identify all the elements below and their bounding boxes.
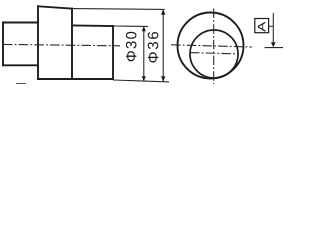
shared bottom extension line xyxy=(113,80,169,82)
datum A: centerline extension at right edge xyxy=(265,47,284,49)
right view: inner eccentric circle xyxy=(190,30,238,78)
dimension phi30: value text xyxy=(126,32,137,62)
front view: flange top edge xyxy=(38,6,72,8)
right view: vertical centerline xyxy=(213,9,215,85)
front view: flange right vertical xyxy=(71,9,73,79)
right view: horizontal centerline of inner circle xyxy=(190,53,236,54)
dimension phi30: dimension line xyxy=(143,26,145,81)
front view: right end face xyxy=(112,26,114,79)
dimension phi30: bottom arrowhead xyxy=(142,76,146,81)
dimension phi36: top arrowhead xyxy=(161,9,165,15)
stray scan dash bottom-left xyxy=(16,83,26,85)
dimension phi36: value text xyxy=(148,32,159,63)
dimension phi30: top arrowhead xyxy=(142,26,146,31)
front view: left section bottom edge xyxy=(3,64,38,66)
datum A: filled triangle arrowhead xyxy=(271,42,276,47)
datum A: frame box xyxy=(255,19,269,33)
dimension phi36: top extension line xyxy=(72,8,165,11)
front view: right section top edge xyxy=(72,24,113,27)
front view: left section top edge xyxy=(3,22,38,24)
front view centerline (dash-dot) xyxy=(3,44,120,45)
dimension phi36: dimension line xyxy=(162,9,164,81)
datum A: letter xyxy=(258,22,266,32)
right view: outer circle (flange) xyxy=(178,13,244,79)
front view: flange left vertical xyxy=(37,6,39,79)
datum A: connector stub from frame to leader xyxy=(269,25,274,27)
dimension phi30: top extension line xyxy=(113,25,148,27)
right view: horizontal centerline of outer circle xyxy=(171,45,252,47)
dimension phi36: bottom arrowhead xyxy=(161,76,165,82)
front view: bottom edge of flange and right section xyxy=(38,78,113,80)
datum A: leader vertical xyxy=(272,13,274,44)
front view: left end face xyxy=(2,23,4,66)
